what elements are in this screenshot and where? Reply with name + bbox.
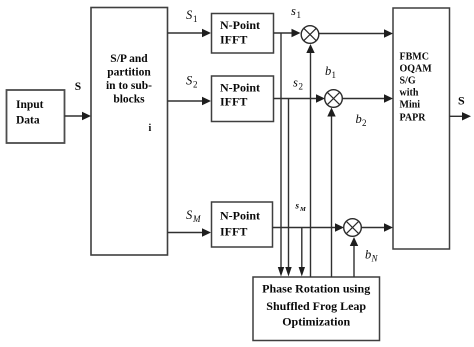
svg-text:N-Point: N-Point bbox=[220, 18, 260, 32]
svg-text:IFFT: IFFT bbox=[220, 225, 247, 239]
svg-text:Optimization: Optimization bbox=[282, 315, 350, 329]
svg-text:Input: Input bbox=[16, 99, 44, 111]
svg-text:blocks: blocks bbox=[113, 94, 145, 106]
svg-text:s: s bbox=[293, 76, 298, 90]
svg-text:Data: Data bbox=[16, 115, 40, 127]
svg-text:2: 2 bbox=[299, 82, 304, 92]
svg-text:Phase Rotation using: Phase Rotation using bbox=[262, 282, 370, 296]
svg-text:b: b bbox=[356, 112, 362, 126]
svg-text:OQAM: OQAM bbox=[400, 64, 433, 75]
svg-text:IFFT: IFFT bbox=[220, 95, 247, 109]
svg-text:2: 2 bbox=[362, 118, 367, 128]
svg-text:IFFT: IFFT bbox=[220, 33, 247, 47]
svg-text:N: N bbox=[371, 254, 379, 264]
svg-text:s: s bbox=[291, 4, 296, 18]
svg-text:b: b bbox=[365, 248, 371, 262]
svg-text:2: 2 bbox=[193, 80, 198, 90]
svg-text:Mini: Mini bbox=[400, 100, 421, 111]
svg-text:S: S bbox=[75, 81, 81, 93]
svg-text:with: with bbox=[400, 88, 419, 99]
svg-text:M: M bbox=[192, 214, 201, 224]
svg-text:partition: partition bbox=[107, 67, 151, 79]
svg-text:N-Point: N-Point bbox=[220, 81, 260, 95]
svg-text:1: 1 bbox=[297, 10, 302, 20]
svg-text:S: S bbox=[186, 208, 193, 222]
svg-text:S/G: S/G bbox=[400, 76, 416, 87]
svg-text:1: 1 bbox=[193, 14, 198, 24]
svg-text:S/P and: S/P and bbox=[110, 53, 148, 65]
svg-text:N-Point: N-Point bbox=[220, 209, 260, 223]
svg-text:s: s bbox=[295, 201, 300, 211]
svg-text:b: b bbox=[325, 64, 331, 78]
svg-text:S: S bbox=[186, 74, 193, 88]
svg-text:M: M bbox=[299, 206, 306, 213]
svg-text:FBMC: FBMC bbox=[400, 52, 429, 63]
svg-text:i: i bbox=[149, 123, 152, 134]
svg-text:1: 1 bbox=[332, 70, 337, 80]
svg-text:PAPR: PAPR bbox=[400, 113, 427, 124]
svg-text:Shuffled Frog Leap: Shuffled Frog Leap bbox=[266, 299, 366, 313]
svg-text:S: S bbox=[458, 94, 465, 108]
svg-text:in to sub-: in to sub- bbox=[106, 80, 152, 92]
svg-text:S: S bbox=[186, 8, 193, 22]
